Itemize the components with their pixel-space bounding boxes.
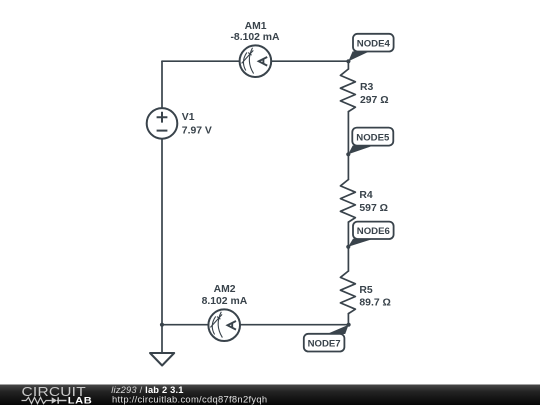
node NODE7 tail [327,325,349,334]
wire R3 to NODE5 junction [347,112,349,155]
label AM2 value [202,284,248,307]
wire corner to AM1 left [162,60,240,62]
wire NODE7 junction to AM2 right [240,324,348,326]
wire NODE6 junction to R5 [347,247,349,271]
svg-text:89.7 Ω: 89.7 Ω [359,298,390,309]
voltage source V1 [147,108,178,139]
svg-text:http://circuitlab.com/cdq87f8n: http://circuitlab.com/cdq87f8n2fyqh [112,393,267,404]
resistor R5 zigzag [340,271,355,314]
logo diode [52,397,57,404]
svg-text:R4: R4 [359,190,373,201]
footer bar [0,385,540,405]
node NODE7 [304,334,345,352]
svg-text:NODE7: NODE7 [308,338,341,349]
wire AM2 left to ground junction [162,324,208,326]
label R5 value [359,285,390,308]
ground [150,353,174,366]
label R3 value [360,82,389,106]
svg-text:V1: V1 [182,112,195,123]
wire V1 bottom to ground junction [161,139,163,325]
svg-text:597 Ω: 597 Ω [359,203,388,214]
wire ground junction to ground symbol [161,325,163,353]
wire R5 to NODE7 junction [347,314,349,325]
node NODE5 [352,128,393,146]
node NODE4 [353,34,394,52]
svg-text:NODE4: NODE4 [357,38,391,49]
wire NODE4 junction to R3 [347,61,349,69]
junction NODE6 dot [346,245,350,249]
resistor R3 zigzag [340,69,355,112]
node NODE6 [353,222,394,239]
ammeter AM1 [240,45,272,77]
svg-text:LAB: LAB [68,396,92,405]
svg-text:8.102 mA: 8.102 mA [202,296,248,307]
junction NODE5 dot [346,152,350,156]
ammeter AM2 letter A [228,321,237,330]
wire AM1 right to NODE4 junction [271,60,348,62]
wire V1 top to corner [161,61,163,108]
svg-text:R3: R3 [360,82,374,93]
node NODE4 tail [348,51,369,61]
node NODE6 tail [348,239,373,247]
label R4 value [359,190,388,214]
junction NODE4 dot [346,59,350,63]
svg-text:R5: R5 [359,285,373,296]
svg-text:-8.102 mA: -8.102 mA [230,32,280,43]
resistor R4 zigzag [340,180,355,223]
junction ground dot [160,323,164,327]
svg-text:7.97 V: 7.97 V [182,125,212,136]
svg-text:NODE5: NODE5 [356,132,390,143]
node NODE5 tail [348,146,374,155]
ammeter AM2 [208,309,240,341]
logo resistor zigzag [22,397,52,403]
svg-text:AM2: AM2 [214,284,236,295]
junction NODE7 dot [347,323,351,327]
svg-text:NODE6: NODE6 [357,226,390,237]
wire R4 to NODE6 junction [347,222,349,247]
label V1 value [182,112,212,136]
ammeter AM1 letter A [259,57,268,66]
wire NODE5 junction to R4 [347,154,349,179]
label AM1 value [230,21,280,43]
svg-text:AM1: AM1 [245,21,267,32]
svg-text:297 Ω: 297 Ω [360,95,389,106]
